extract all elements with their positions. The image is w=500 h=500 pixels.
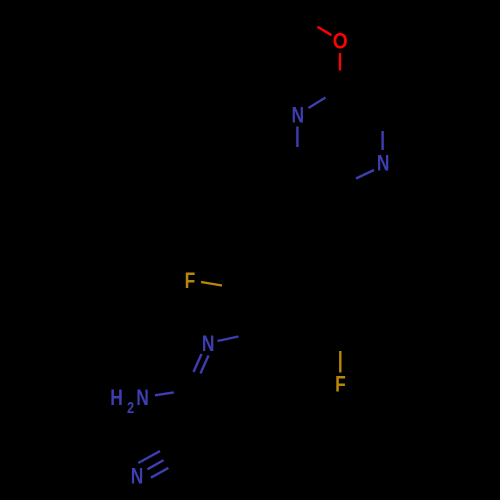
bond C3-N4 pyrazine (blue half near N4) bbox=[381, 131, 383, 150]
bond F1-C (gold half near F1) bbox=[201, 282, 222, 286]
svg-text:O: O bbox=[333, 30, 348, 54]
svg-text:N: N bbox=[291, 104, 304, 128]
svg-text:H: H bbox=[110, 386, 123, 410]
bond H2N-C2 (blue half near N) bbox=[155, 392, 174, 395]
bond F2-C (gold half near F2) bbox=[339, 351, 341, 373]
bond Npy-C6 pyridine (blue half near N) bbox=[218, 337, 239, 342]
bond N1-C6 pyrazine (blue half near N1) bbox=[296, 127, 298, 148]
svg-text:F: F bbox=[185, 269, 196, 293]
svg-text:N: N bbox=[131, 465, 144, 489]
svg-text:N: N bbox=[202, 332, 215, 356]
svg-text:N: N bbox=[377, 152, 390, 176]
svg-text:F: F bbox=[335, 373, 346, 397]
bond N4-C5 pyrazine (blue half near N4) bbox=[356, 170, 374, 179]
bond N1-C2 pyrazine (blue half near N1) bbox=[309, 98, 326, 109]
nitrile triple bond middle line (blue half near N) bbox=[147, 460, 163, 469]
svg-text:2: 2 bbox=[127, 400, 134, 418]
svg-text:N: N bbox=[136, 386, 149, 410]
bond CH3-O (red half near O) bbox=[318, 27, 332, 35]
double bond N=C2 pyridine main line (blue half near N) bbox=[194, 354, 202, 372]
nitrile triple bond lower line (blue half near N) bbox=[151, 468, 169, 478]
nitrile triple bond upper line (blue half near N) bbox=[138, 451, 160, 463]
double bond N=C2 pyridine inner line (blue half near N) bbox=[201, 355, 209, 373]
bond O-C2 pyrazine (red half near O) bbox=[339, 53, 341, 71]
